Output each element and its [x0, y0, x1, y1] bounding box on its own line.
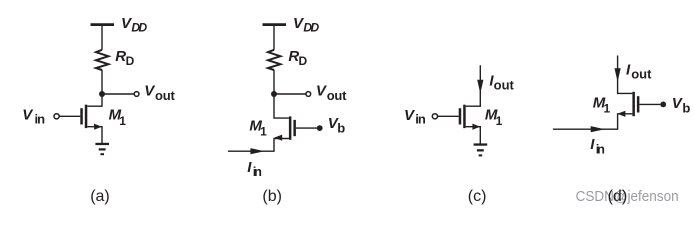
wire node to Vout terminal (a) [102, 93, 134, 95]
arrow Iout current direction (d) [615, 68, 621, 82]
wire node to Vout terminal (b) [274, 93, 306, 95]
svg-text:in: in [35, 111, 46, 126]
wire gate to bias dot (d) [639, 103, 660, 105]
transistor M1 (d) NMOS mirrored [553, 92, 640, 129]
ground (a) [95, 143, 109, 155]
wire Vin terminal to gate (c) [438, 115, 459, 117]
wire VDD bar to resistor (a) [101, 26, 103, 50]
wire VDD bar to resistor (b) [273, 26, 275, 50]
svg-text:DD: DD [131, 21, 147, 35]
svg-text:out: out [631, 67, 652, 82]
wire gate to bias dot (b) [296, 127, 317, 129]
terminal Vout (a) [134, 92, 139, 97]
svg-text:(b): (b) [262, 188, 282, 205]
svg-text:out: out [155, 88, 175, 103]
resistor RD (a) [96, 50, 108, 70]
svg-text:out: out [327, 88, 347, 103]
terminal Vin (a) [54, 114, 59, 119]
svg-text:V: V [404, 107, 416, 124]
arrow Iin current direction (b) [250, 148, 264, 154]
power VDD bar (a) [91, 23, 115, 26]
svg-text:DD: DD [303, 21, 319, 35]
svg-text:out: out [494, 78, 515, 93]
svg-text:in: in [596, 142, 605, 157]
terminal Vout (b) [306, 92, 311, 97]
wire Iout with drain bend (d) [618, 56, 633, 94]
wire Vin terminal to gate (a) [59, 115, 80, 117]
svg-text:1: 1 [604, 102, 611, 116]
svg-text:in: in [253, 164, 262, 179]
arrow Iin current direction (d) [591, 126, 605, 132]
transistor M1 (b) NMOS mirrored [228, 94, 296, 151]
svg-text:(c): (c) [468, 188, 487, 205]
terminal Vin (c) [432, 114, 437, 119]
ground (c) [474, 143, 488, 156]
node: bias terminal Vb (d) [660, 102, 666, 108]
svg-text:V: V [22, 107, 34, 124]
svg-text:D: D [126, 54, 135, 68]
svg-text:1: 1 [119, 114, 126, 128]
svg-text:R: R [115, 48, 126, 65]
svg-text:in: in [415, 112, 426, 127]
resistor RD (b) [268, 50, 280, 70]
svg-text:I: I [590, 136, 595, 153]
transistor M1 (c) NMOS [459, 105, 481, 144]
svg-text:I: I [247, 159, 252, 176]
transistor M1 (a) NMOS [80, 94, 102, 143]
node: drain/output junction (a) [99, 91, 105, 97]
svg-text:1: 1 [496, 114, 503, 128]
svg-text:b: b [337, 120, 345, 135]
svg-text:D: D [299, 54, 308, 68]
wire resistor to output node (a) [101, 70, 103, 94]
power VDD bar (b) [263, 23, 287, 26]
svg-text:(d): (d) [608, 188, 628, 205]
svg-text:b: b [682, 100, 690, 115]
svg-text:(a): (a) [90, 188, 110, 205]
node: drain/output junction (b) [271, 91, 277, 97]
node: bias terminal Vb (b) [317, 125, 323, 131]
wire resistor to output node (b) [273, 70, 275, 94]
arrow Iout current direction (c) [477, 80, 483, 94]
svg-text:1: 1 [260, 125, 267, 139]
wire Iout with drain bend (c) [466, 65, 481, 106]
